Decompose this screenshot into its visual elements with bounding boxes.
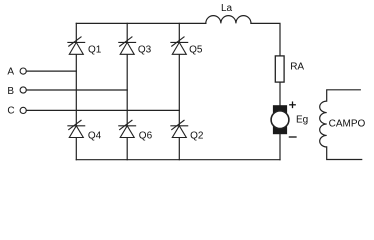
wire leg3 top [126,23,128,42]
wire Eg to bottom bus [279,134,281,160]
wire leg5 mid [178,54,180,126]
inductor La [206,16,251,24]
wire leg5 lower [178,138,180,160]
wire leg5 top [178,23,180,42]
label Q2 [190,130,204,141]
label minus [289,136,296,138]
thyristor Q2 [171,120,188,138]
node C [7,106,14,117]
label RA [290,61,304,72]
label La [221,3,233,14]
svg-text:CAMPO: CAMPO [329,119,366,130]
wire B to leg2 [26,89,127,91]
terminal C [20,107,26,113]
label Q4 [88,130,102,141]
svg-text:Q6: Q6 [139,130,153,141]
label plus [290,102,295,107]
svg-text:Eg: Eg [296,115,308,126]
thyristor Q5 [171,37,188,55]
wire La to RA [251,23,280,56]
wire top bus [76,22,206,24]
thyristor Q1 [68,37,85,55]
svg-text:B: B [7,86,14,97]
wire leg3 lower [126,138,128,160]
svg-text:Q1: Q1 [88,45,102,56]
svg-text:Q5: Q5 [189,45,203,56]
node B [7,86,14,97]
wire A to leg1 [26,70,76,72]
svg-text:C: C [7,106,14,117]
thyristor Q4 [68,120,85,138]
wire leg3 mid [126,54,128,126]
terminal B [20,87,26,93]
svg-text:La: La [221,3,233,14]
label Q3 [138,45,152,56]
wire leg1 lower [75,138,77,160]
svg-text:A: A [7,67,14,78]
label Q5 [189,45,203,56]
label CAMPO [329,119,366,130]
svg-text:Q4: Q4 [88,130,102,141]
resistor RA [275,56,284,82]
svg-text:Q3: Q3 [138,45,152,56]
svg-text:RA: RA [290,61,304,72]
label Q1 [88,45,102,56]
wire C to leg3 [26,109,179,111]
generator Eg [271,105,289,134]
wire bottom bus [76,159,280,161]
thyristor Q6 [119,120,136,138]
wire leg1 top [75,23,77,42]
wire leg1 mid [75,54,77,126]
thyristor Q3 [119,37,136,55]
terminal A [20,68,26,74]
svg-text:Q2: Q2 [190,130,204,141]
node A [7,67,14,78]
label Eg [296,115,308,126]
wire RA to Eg [279,82,281,105]
field winding CAMPO [320,90,362,160]
label Q6 [139,130,153,141]
